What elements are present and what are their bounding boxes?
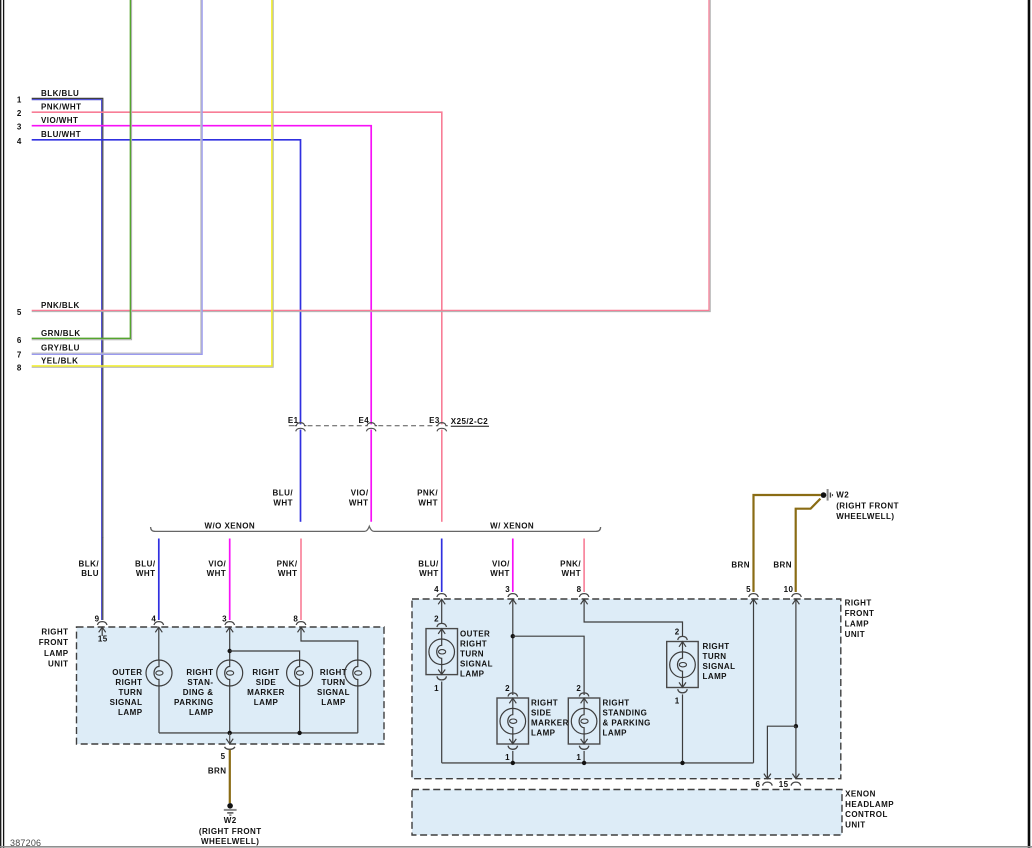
BRN wire from W2 to pin 10 [773,499,820,594]
svg-text:RIGHT: RIGHT [320,668,347,677]
svg-text:FRONT: FRONT [39,638,69,647]
svg-text:LAMP: LAMP [254,698,279,707]
ground W2 right front wheelwell (bottom) [199,803,262,846]
wire BLU/WHT below E1 [273,430,301,522]
svg-text:WHT: WHT [490,569,510,578]
svg-text:RIGHT: RIGHT [186,668,213,677]
svg-text:(RIGHT FRONT: (RIGHT FRONT [836,501,899,510]
svg-text:STAN-: STAN- [187,678,213,687]
wire pin3 junction to side marker feed [228,649,300,660]
svg-text:2: 2 [505,684,510,693]
svg-text:BRN: BRN [208,766,227,775]
page border left double line [1,0,4,848]
wire BLK/BLU drop to left unit [79,538,103,624]
wire 6 GRN/BLK [17,0,132,345]
svg-text:GRY/BLU: GRY/BLU [41,344,80,353]
svg-text:WHT: WHT [136,569,156,578]
svg-text:BLU/: BLU/ [273,488,294,497]
label right front lamp unit (right) [845,599,875,639]
svg-text:WHT: WHT [207,569,227,578]
right front lamp unit box (right, w/ xenon) [412,599,841,779]
page border right [1028,0,1031,848]
pin 5 exit (left box) [221,733,235,761]
svg-text:HEADLAMP: HEADLAMP [845,800,894,809]
svg-text:SIDE: SIDE [531,709,552,718]
svg-text:YEL/BLK: YEL/BLK [41,357,78,366]
svg-text:1: 1 [675,697,680,706]
svg-text:1: 1 [576,753,581,762]
svg-text:SIDE: SIDE [256,678,277,687]
ground W2 right front wheelwell (top right) [821,489,899,521]
pin10 junction and elbow to exit 6 [764,724,798,779]
wire 7 GRY/BLU [17,0,202,360]
svg-text:5: 5 [17,308,22,317]
lamp outer right turn signal (right box) [426,615,493,763]
junction pin3 feed [511,634,585,695]
pin 8 entry (right box) [579,594,682,637]
svg-text:BLU/WHT: BLU/WHT [41,130,81,139]
svg-text:PARKING: PARKING [174,698,213,707]
label X25/2-C2 [451,417,489,426]
svg-text:MARKER: MARKER [531,719,569,728]
svg-text:SIGNAL: SIGNAL [703,662,736,671]
wire BLU/WHT drop left [135,539,159,624]
pin 10 entry (right box) [792,594,802,727]
xenon headlamp control unit box [412,790,842,836]
svg-text:387206: 387206 [10,838,41,848]
wire 2 PNK/WHT [17,103,442,425]
wire 3 VIO/WHT [17,116,371,424]
svg-text:5: 5 [221,752,226,761]
svg-text:BRN: BRN [731,561,750,570]
svg-text:(RIGHT FRONT: (RIGHT FRONT [199,827,262,836]
options brace [151,526,601,531]
svg-text:WHEELWELL): WHEELWELL) [201,837,259,846]
svg-text:BLU/: BLU/ [135,560,156,569]
svg-text:UNIT: UNIT [845,630,865,639]
pin 4 entry (right box) [437,594,447,624]
svg-text:SIGNAL: SIGNAL [110,698,143,707]
pin 5 entry (right box) [749,594,759,763]
svg-text:SIGNAL: SIGNAL [317,688,350,697]
lamp right turn signal (right box) [667,627,736,763]
svg-text:& PARKING: & PARKING [603,719,651,728]
svg-text:LAMP: LAMP [845,619,870,628]
svg-text:GRN/BLK: GRN/BLK [41,329,81,338]
svg-text:2: 2 [17,109,22,118]
bus left box [159,731,358,735]
svg-text:LAMP: LAMP [460,669,485,678]
svg-text:TURN: TURN [321,678,345,687]
svg-text:BLU: BLU [81,569,99,578]
svg-text:LAMP: LAMP [321,698,346,707]
svg-text:LAMP: LAMP [44,649,69,658]
svg-text:1: 1 [434,684,439,693]
svg-text:VIO/WHT: VIO/WHT [41,116,78,125]
svg-text:2: 2 [434,615,439,624]
svg-text:VIO/: VIO/ [208,560,226,569]
wire 8 YEL/BLK [17,0,273,372]
svg-text:VIO/: VIO/ [351,488,369,497]
svg-text:PNK/: PNK/ [277,560,298,569]
svg-text:SIGNAL: SIGNAL [460,659,493,668]
svg-text:W/ XENON: W/ XENON [490,521,534,530]
svg-text:1: 1 [505,753,510,762]
wire PNK/WHT below E3 [417,430,442,522]
svg-text:RIGHT: RIGHT [115,678,142,687]
right front lamp unit box (left, w/o xenon) [77,627,385,744]
pin 8 entry (left box) [296,622,358,661]
svg-text:LAMP: LAMP [531,729,556,738]
connector E1 [288,416,307,431]
svg-text:WHT: WHT [273,498,293,507]
pin 15 connector below box [779,780,801,789]
svg-text:WHT: WHT [562,569,582,578]
wire 1 BLK/BLU [17,89,103,538]
svg-text:TURN: TURN [118,688,142,697]
svg-text:TURN: TURN [460,649,484,658]
svg-text:LAMP: LAMP [603,729,628,738]
svg-text:DING &: DING & [183,688,214,697]
bus right box [442,761,754,765]
svg-text:OUTER: OUTER [460,629,490,638]
svg-text:BLK/: BLK/ [79,560,100,569]
wire 5 PNK/BLK [17,0,710,317]
pin 3 entry (right box) [508,594,518,695]
svg-text:CONTROL: CONTROL [845,810,888,819]
pin 9/15 entry [97,622,107,644]
svg-text:XENON: XENON [845,790,876,799]
svg-text:PNK/BLK: PNK/BLK [41,301,80,310]
svg-text:WHT: WHT [418,498,438,507]
svg-text:RIGHT: RIGHT [703,642,730,651]
lamp right standing and parking (left box) [174,660,243,733]
svg-text:RIGHT: RIGHT [603,699,630,708]
svg-text:LAMP: LAMP [189,708,214,717]
pin 3 entry (left box) [225,622,235,661]
svg-text:1: 1 [17,95,22,104]
svg-text:7: 7 [17,351,22,360]
svg-text:LAMP: LAMP [118,708,143,717]
svg-text:UNIT: UNIT [48,659,68,668]
svg-text:WHT: WHT [278,569,298,578]
svg-text:W2: W2 [224,816,237,825]
svg-text:BLK/BLU: BLK/BLU [41,89,79,98]
svg-text:LAMP: LAMP [703,672,728,681]
svg-text:2: 2 [675,627,680,636]
svg-text:RIGHT: RIGHT [531,699,558,708]
wire 4 BLU/WHT [17,130,301,424]
wire VIO/WHT below E4 [349,430,371,522]
svg-text:VIO/: VIO/ [492,560,510,569]
label right front lamp unit (left) [39,627,69,668]
svg-text:PNK/: PNK/ [560,560,581,569]
lamp right side marker (left box) [247,660,313,733]
svg-text:PNK/: PNK/ [417,488,438,497]
connector E3 [429,416,448,431]
lamp right turn signal (left box) [317,660,371,733]
lamp right side marker (right box) [497,684,569,763]
wire PNK/WHT drop left [277,539,301,624]
svg-text:W2: W2 [836,491,849,500]
pin 4 entry (left box) [154,622,164,661]
svg-text:OUTER: OUTER [112,668,142,677]
wire VIO/WHT drop left [207,539,230,624]
svg-text:10: 10 [784,585,794,594]
wire VIO/WHT drop right [490,539,513,595]
svg-text:4: 4 [434,585,439,594]
connector E4 [359,416,378,431]
svg-text:6: 6 [17,336,22,345]
svg-text:RIGHT: RIGHT [252,668,279,677]
svg-text:STANDING: STANDING [603,709,648,718]
wire BLU/WHT drop right [418,539,441,595]
lamp right standing and parking (right box) [568,684,651,763]
svg-text:BLU/: BLU/ [418,560,439,569]
svg-text:X25/2-C2: X25/2-C2 [451,417,488,426]
svg-text:MARKER: MARKER [247,688,285,697]
svg-text:6: 6 [755,780,760,789]
svg-text:RIGHT: RIGHT [460,639,487,648]
svg-text:WHT: WHT [349,498,369,507]
svg-text:2: 2 [576,684,581,693]
svg-text:W/O XENON: W/O XENON [204,521,255,530]
exit 15 line [792,726,799,779]
wire PNK/WHT drop right [560,539,584,595]
svg-text:15: 15 [98,635,108,644]
BRN wire to bottom ground [208,750,230,803]
pin 6 connector below box [755,780,772,789]
svg-text:FRONT: FRONT [845,609,875,618]
svg-text:PNK/WHT: PNK/WHT [41,103,81,112]
svg-text:RIGHT: RIGHT [41,627,68,636]
lamp outer right turn signal (left box) [110,660,172,733]
svg-text:RIGHT: RIGHT [845,599,872,608]
svg-text:BRN: BRN [773,561,792,570]
connector row dashed line [289,425,435,427]
svg-text:3: 3 [17,123,22,132]
page border bottom [0,846,1032,848]
svg-text:WHT: WHT [419,569,439,578]
BRN wire from W2 to pin 5 [731,495,820,594]
label xenon headlamp control unit [845,790,894,830]
svg-text:8: 8 [17,363,22,372]
svg-text:WHEELWELL): WHEELWELL) [836,512,894,521]
svg-text:UNIT: UNIT [845,821,865,830]
svg-text:15: 15 [779,780,789,789]
svg-text:4: 4 [17,137,22,146]
svg-text:3: 3 [505,585,510,594]
svg-text:TURN: TURN [703,652,727,661]
svg-text:8: 8 [577,585,582,594]
svg-text:5: 5 [746,585,751,594]
